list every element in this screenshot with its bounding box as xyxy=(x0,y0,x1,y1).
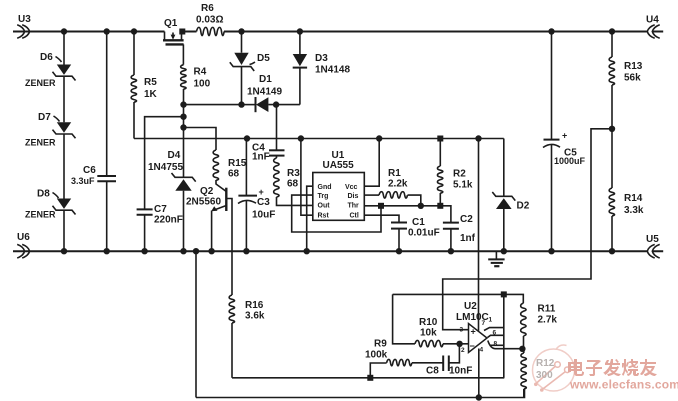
svg-text:R2: R2 xyxy=(453,169,466,180)
svg-text:3.3k: 3.3k xyxy=(624,205,644,216)
svg-text:10k: 10k xyxy=(420,328,437,339)
svg-text:56k: 56k xyxy=(624,73,641,84)
zener diode D2 (pointing up) xyxy=(492,139,529,252)
resistor R13 56k xyxy=(609,32,643,129)
svg-text:1N4149: 1N4149 xyxy=(247,87,282,98)
svg-text:C2: C2 xyxy=(460,214,473,225)
svg-text:1nF: 1nF xyxy=(252,152,270,163)
svg-text:R10: R10 xyxy=(419,317,438,328)
svg-text:C7: C7 xyxy=(154,204,167,215)
wire output to R11/R12 junction xyxy=(488,341,523,349)
svg-text:+: + xyxy=(259,187,264,197)
svg-text:D5: D5 xyxy=(257,53,270,64)
wire Trg pin loop to Thr xyxy=(292,195,381,232)
svg-text:2.2k: 2.2k xyxy=(388,179,408,190)
wire top rail right segment xyxy=(182,31,663,33)
resistor R11 2.7k xyxy=(521,303,558,349)
svg-text:Ctl: Ctl xyxy=(350,213,359,220)
svg-text:D1: D1 xyxy=(259,74,272,85)
wire R16/R9/C8 bus y=377.8 xyxy=(232,377,504,379)
capacitor C3 10uF (polarized) xyxy=(238,139,275,252)
op-amp U2 LM10C xyxy=(456,301,498,354)
svg-text:R4: R4 xyxy=(194,67,207,78)
svg-text:Rst: Rst xyxy=(318,213,330,220)
svg-text:R12: R12 xyxy=(536,358,555,369)
svg-text:4: 4 xyxy=(480,347,484,354)
capacitor C6 3.3uF xyxy=(71,32,116,252)
svg-text:Vcc: Vcc xyxy=(345,184,358,191)
capacitor C5 1000uF (polarized) xyxy=(543,32,586,252)
svg-text:1: 1 xyxy=(489,317,493,324)
wire feedback from R13/R14 junction to op-amp +input xyxy=(443,129,612,330)
transistor Q1 (P-MOSFET in series with rail) xyxy=(163,18,185,65)
svg-text:0.01uF: 0.01uF xyxy=(408,228,440,239)
ground symbol xyxy=(488,251,504,266)
wire bottom ground rail xyxy=(13,250,663,252)
resistor R12 (under watermark) xyxy=(521,349,526,398)
svg-text:C8: C8 xyxy=(426,366,439,377)
resistor R10 10k xyxy=(415,317,469,347)
node U5 (bottom-right off-page arrow) xyxy=(646,234,660,258)
resistor R3 68 xyxy=(274,158,313,205)
svg-text:100: 100 xyxy=(194,79,211,90)
svg-text:Q1: Q1 xyxy=(164,18,178,29)
zener diode D4 1N4755 (pointing up) xyxy=(148,150,196,251)
wire bottom-most rail xyxy=(196,389,525,398)
svg-text:−: − xyxy=(470,341,475,351)
node U4 (top-right off-page arrow) xyxy=(646,15,660,39)
svg-text:1N4148: 1N4148 xyxy=(315,65,350,76)
svg-text:D6: D6 xyxy=(40,52,53,63)
svg-text:www.elecfans.com: www.elecfans.com xyxy=(569,378,678,392)
capacitor C4 1nF xyxy=(252,105,285,163)
svg-text:U2: U2 xyxy=(464,301,477,312)
svg-text:C3: C3 xyxy=(257,197,270,208)
svg-text:UA555: UA555 xyxy=(323,160,355,171)
diode D3 1N4148 xyxy=(293,32,351,105)
wire R10 left leg xyxy=(393,294,415,343)
wire pin1/6 vertical xyxy=(503,294,505,377)
svg-text:Dis: Dis xyxy=(348,193,359,200)
node U6 (bottom-left off-page arrow) xyxy=(17,232,30,258)
svg-text:Trg: Trg xyxy=(318,193,329,200)
transistor Q2 2N5560 xyxy=(186,180,232,295)
svg-text:ZENER: ZENER xyxy=(25,210,56,220)
zener diode D8 xyxy=(25,189,76,252)
svg-text:+: + xyxy=(471,327,476,337)
resistor R4 100 xyxy=(181,65,211,105)
zener diode D5 xyxy=(230,32,270,105)
resistor R5 1K xyxy=(131,32,157,139)
svg-text:ZENER: ZENER xyxy=(25,78,56,88)
svg-text:68: 68 xyxy=(228,169,240,180)
svg-text:1000uF: 1000uF xyxy=(554,156,586,166)
svg-text:Gnd: Gnd xyxy=(318,184,332,191)
wire Thr node xyxy=(364,206,451,223)
diode D1 1N4149 (horizontal, pointing left) xyxy=(242,74,300,112)
svg-text:1nf: 1nf xyxy=(460,233,476,244)
svg-text:U6: U6 xyxy=(17,232,30,243)
svg-text:R9: R9 xyxy=(374,339,387,350)
wire reference node vertical x=183.5 (gate/R4/D4 line) xyxy=(183,105,185,178)
svg-text:68: 68 xyxy=(287,179,299,190)
svg-text:1K: 1K xyxy=(144,89,158,100)
svg-text:+: + xyxy=(562,131,567,141)
svg-text:C6: C6 xyxy=(83,165,96,176)
zener diode D7 xyxy=(25,112,76,201)
wire pin8 xyxy=(490,344,504,346)
svg-text:D2: D2 xyxy=(517,201,530,212)
svg-text:5.1k: 5.1k xyxy=(453,180,473,191)
wire Rst pin up to reference bus xyxy=(301,139,313,216)
svg-text:R6: R6 xyxy=(201,3,214,14)
svg-text:7: 7 xyxy=(482,320,486,327)
wire D4/R4 node to D1 xyxy=(184,104,242,106)
svg-text:Q2: Q2 xyxy=(200,186,214,197)
svg-text:8: 8 xyxy=(494,341,498,348)
resistor R9 100k xyxy=(365,339,443,379)
svg-text:ZENER: ZENER xyxy=(25,138,56,148)
svg-text:R11: R11 xyxy=(538,304,556,315)
wire top rail left segment xyxy=(13,31,165,33)
wire reference bus y=138.5 xyxy=(134,138,504,140)
svg-text:1N4755: 1N4755 xyxy=(148,162,183,173)
svg-text:2N5560: 2N5560 xyxy=(186,197,221,208)
resistor R16 3.6k xyxy=(229,295,265,378)
svg-text:10nF: 10nF xyxy=(449,366,472,377)
wire Vcc pin up to reference bus xyxy=(364,139,379,187)
capacitor C8 10nF xyxy=(426,344,472,377)
wire left outer loop xyxy=(195,251,197,397)
svg-text:10uF: 10uF xyxy=(252,210,275,221)
svg-text:0.03Ω: 0.03Ω xyxy=(196,15,223,26)
wire pin6 xyxy=(488,335,505,337)
op-amp U1 UA555 box xyxy=(313,150,365,220)
svg-text:R13: R13 xyxy=(624,61,643,72)
svg-text:D8: D8 xyxy=(37,189,50,200)
svg-text:3: 3 xyxy=(460,327,464,334)
wire R15 tap xyxy=(184,128,217,151)
wire pin1 xyxy=(484,328,504,331)
node U3 (top-left off-page arrow) xyxy=(17,14,31,38)
resistor R15 68 xyxy=(213,150,247,180)
svg-text:3.3uF: 3.3uF xyxy=(71,176,95,186)
svg-text:D7: D7 xyxy=(38,112,51,123)
resistor R6 0.03ohm xyxy=(196,3,224,36)
capacitor C2 1nf xyxy=(443,214,476,251)
resistor R1 2.2k (Dis to Thr) xyxy=(364,168,421,206)
svg-text:U4: U4 xyxy=(646,15,659,26)
svg-text:R16: R16 xyxy=(245,300,264,311)
svg-text:D3: D3 xyxy=(315,53,328,64)
resistor R14 3.3k xyxy=(609,129,644,251)
wire Gnd pin to ground rail xyxy=(307,186,313,251)
junction dots on top rail xyxy=(61,28,67,34)
svg-text:Thr: Thr xyxy=(348,203,360,210)
svg-text:3.6k: 3.6k xyxy=(245,311,265,322)
svg-text:U5: U5 xyxy=(646,234,659,245)
capacitor C7 220nF xyxy=(137,204,183,251)
svg-text:Out: Out xyxy=(318,203,331,210)
wire pin1/6 reference line y=294.4 xyxy=(393,294,524,303)
resistor R2 5.1k xyxy=(437,139,472,206)
capacitor C1 0.01uF xyxy=(364,215,439,251)
watermark logo circle xyxy=(533,345,575,392)
svg-text:2: 2 xyxy=(461,347,465,354)
wire pin7 V+ xyxy=(478,139,480,331)
svg-text:R15: R15 xyxy=(228,158,247,169)
wire pin4 V- xyxy=(478,349,480,398)
svg-text:100k: 100k xyxy=(365,350,388,361)
svg-text:D4: D4 xyxy=(168,150,181,161)
svg-text:R14: R14 xyxy=(624,193,643,204)
svg-text:300: 300 xyxy=(536,370,553,381)
svg-text:C1: C1 xyxy=(412,217,425,228)
svg-text:U3: U3 xyxy=(18,14,31,25)
wire C7 tap xyxy=(145,117,184,210)
svg-text:2.7k: 2.7k xyxy=(538,315,558,326)
zener diode D6 xyxy=(25,32,76,123)
svg-text:R5: R5 xyxy=(144,77,157,88)
svg-text:220nF: 220nF xyxy=(154,215,183,226)
svg-text:R1: R1 xyxy=(388,168,401,179)
watermark text xyxy=(568,359,657,376)
svg-text:R3: R3 xyxy=(287,168,300,179)
